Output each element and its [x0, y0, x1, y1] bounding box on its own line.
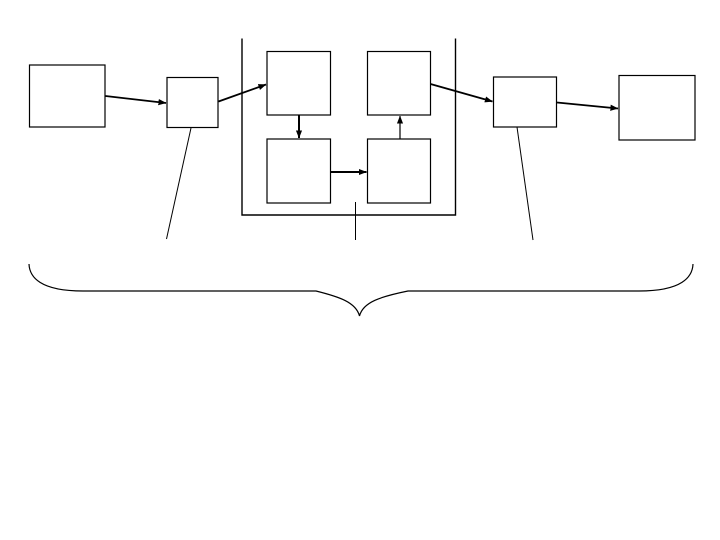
- wire arrow A7 (B7 to B8): [557, 103, 618, 109]
- box B8 (far right): [619, 76, 695, 141]
- box B6 (top-right inner): [368, 52, 431, 116]
- box B5 (bottom-right inner): [368, 139, 431, 203]
- wire arrow A2 (B2 to B3): [219, 85, 267, 102]
- box B1 (far left): [30, 65, 106, 127]
- box B2 (second small box): [167, 78, 218, 128]
- wire arrow A3 (B3 down to B4): [298, 116, 300, 139]
- wire arrow A1 (B1 to B2): [106, 96, 167, 103]
- wire arrow A5 (B5 up to B6): [399, 116, 401, 139]
- wire arrow A4 (B4 right to B5): [331, 171, 367, 173]
- box B4 (bottom-left inner): [267, 139, 331, 203]
- leader line L1 (from B2 bottom): [167, 128, 192, 239]
- leader line L3 (from B7 bottom): [517, 127, 533, 240]
- box B3 (top-left inner): [267, 52, 331, 116]
- curly brace (down-pointing, spans full width): [29, 264, 693, 316]
- bracket enclosure (open-top U around middle boxes): [242, 39, 456, 216]
- box B7 (right small box): [494, 77, 557, 127]
- leader line L2 (center, through bracket bottom): [355, 202, 357, 240]
- wire arrow A6 (B6 to B7): [431, 84, 493, 102]
